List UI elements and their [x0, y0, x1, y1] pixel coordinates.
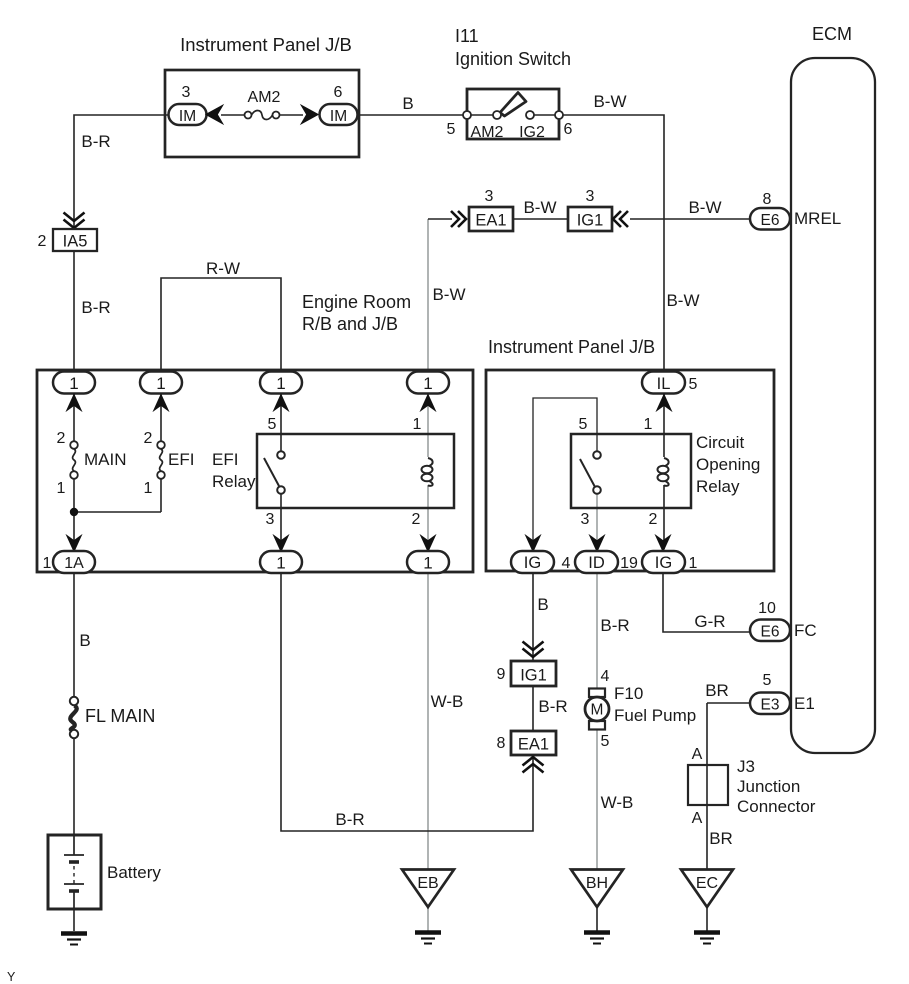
svg-text:BR: BR [705, 681, 729, 700]
arrow up col4 [421, 395, 435, 410]
svg-text:M: M [591, 702, 604, 719]
svg-text:B-W: B-W [593, 92, 626, 111]
wire engine box column MAIN fuse [73, 392, 75, 551]
connector oval 1 bottom col4 [407, 551, 449, 573]
relay COR coil [658, 458, 669, 486]
svg-text:4: 4 [562, 555, 571, 572]
wire G-R IG oval to FC terminal [663, 573, 750, 632]
svg-text:3: 3 [581, 511, 590, 528]
relay box COR [571, 434, 691, 508]
svg-text:19: 19 [620, 555, 638, 572]
svg-text:ECM: ECM [812, 24, 852, 44]
svg-text:IA5: IA5 [63, 233, 88, 251]
svg-text:AM2: AM2 [471, 124, 504, 141]
svg-text:1: 1 [43, 555, 52, 572]
svg-text:2: 2 [144, 430, 153, 447]
wire B-W gray vertical EA1 to engine box [427, 219, 429, 372]
svg-text:IG: IG [655, 554, 672, 572]
svg-text:EFI: EFI [168, 450, 194, 469]
ground triangle EC [681, 870, 733, 908]
connector box IA5 [38, 229, 97, 251]
ground triangle EB [402, 870, 454, 908]
connector oval IL [642, 372, 698, 394]
arrow down col1 [67, 536, 81, 551]
svg-text:8: 8 [497, 735, 506, 752]
svg-text:2: 2 [57, 430, 66, 447]
arrow right into IM oval [302, 106, 318, 123]
chevron double down above IG1 col [523, 642, 544, 658]
svg-text:3: 3 [266, 511, 275, 528]
wire gray COR contact to ID oval [596, 493, 598, 549]
svg-text:G-R: G-R [694, 612, 725, 631]
wire IM right oval to ignition switch [357, 114, 463, 116]
svg-text:6: 6 [564, 121, 573, 138]
svg-text:BH: BH [586, 875, 608, 892]
svg-text:FC: FC [794, 621, 817, 640]
wire ignition switch to corner down to IL [563, 115, 664, 372]
chevron double right before EA1 [451, 211, 466, 227]
connector oval IM 3 [169, 84, 207, 125]
arrow down col4 [421, 536, 435, 551]
svg-text:IG1: IG1 [520, 667, 547, 685]
svg-text:B-W: B-W [666, 291, 699, 310]
svg-text:IG: IG [524, 554, 541, 572]
svg-text:W-B: W-B [431, 692, 464, 711]
svg-text:Relay: Relay [212, 472, 256, 491]
svg-text:Instrument Panel J/B: Instrument Panel J/B [180, 34, 352, 55]
svg-text:BR: BR [709, 829, 733, 848]
wire engine box column EFI fuse [160, 392, 162, 512]
wire IG oval down to IG1 box and EA1 box [532, 573, 534, 731]
fuse MAIN [57, 430, 127, 497]
svg-text:1: 1 [144, 480, 153, 497]
svg-text:IM: IM [330, 108, 347, 125]
arrow down ID [590, 536, 604, 551]
svg-text:EA1: EA1 [518, 736, 549, 754]
connector box EA1 row [469, 188, 513, 231]
svg-text:5: 5 [268, 416, 277, 433]
svg-text:B-R: B-R [81, 132, 110, 151]
arrow down IG1 [656, 536, 670, 551]
svg-text:ID: ID [588, 554, 605, 572]
svg-text:Fuel Pump: Fuel Pump [614, 706, 696, 725]
relay COR switch [580, 451, 601, 494]
svg-text:B: B [537, 595, 548, 614]
arrow up col3 [274, 395, 288, 410]
connector oval ID 19 [575, 551, 638, 573]
svg-text:W-B: W-B [601, 793, 634, 812]
svg-text:5: 5 [601, 733, 610, 750]
junction dot [70, 508, 78, 516]
svg-text:1: 1 [57, 480, 66, 497]
wire B-R gray ID oval to fuel pump [596, 573, 598, 688]
terminal oval E6 MREL [750, 191, 841, 230]
terminal oval E6 FC [750, 600, 817, 641]
svg-text:MAIN: MAIN [84, 450, 127, 469]
svg-text:EFI: EFI [212, 450, 238, 469]
arrow up col1 [67, 395, 81, 410]
arrow up col2 [154, 395, 168, 410]
junction connector J3 [688, 746, 816, 827]
arrow down IG4 [526, 536, 540, 551]
connector box EA1 col [497, 731, 556, 755]
svg-text:B-R: B-R [335, 810, 364, 829]
wire MAIN-EFI junction link [74, 511, 161, 513]
relay EFI coil [422, 458, 433, 486]
connector oval 1A [43, 551, 95, 573]
motor fuel pump F10 [585, 689, 609, 730]
connector box IG1 row [568, 188, 612, 231]
svg-text:I11: I11 [455, 26, 479, 46]
chevron double up below EA1 col [523, 757, 544, 773]
svg-text:F10: F10 [614, 684, 643, 703]
svg-text:Circuit: Circuit [696, 433, 744, 452]
svg-text:B: B [79, 631, 90, 650]
wire engine box to FL MAIN to battery to ground [73, 573, 75, 931]
connector oval 1 engine col3 top [260, 372, 302, 394]
wire EA1 IG1 row to MREL [428, 218, 750, 220]
connector oval 1 engine col2 top [140, 372, 182, 394]
svg-text:1: 1 [413, 416, 422, 433]
svg-text:E6: E6 [761, 624, 780, 641]
wire R-W net [161, 278, 281, 372]
svg-text:5: 5 [447, 121, 456, 138]
switch I11 box [463, 89, 563, 141]
svg-text:E6: E6 [761, 212, 780, 229]
ground EB [415, 933, 441, 944]
svg-text:Engine Room: Engine Room [302, 292, 411, 312]
fusible link FL MAIN [70, 697, 156, 738]
wire engine box relay switch column [280, 392, 282, 551]
svg-text:Battery: Battery [107, 863, 161, 882]
svg-text:R-W: R-W [206, 259, 240, 278]
wire EC stub [706, 907, 708, 931]
svg-text:1: 1 [423, 554, 432, 573]
svg-text:EA1: EA1 [475, 212, 506, 230]
svg-text:J3: J3 [737, 757, 755, 776]
svg-text:B-W: B-W [688, 198, 721, 217]
svg-text:3: 3 [182, 84, 191, 101]
svg-text:Connector: Connector [737, 797, 816, 816]
svg-text:R/B and J/B: R/B and J/B [302, 314, 398, 334]
svg-text:1: 1 [276, 374, 285, 393]
svg-text:B-R: B-R [538, 697, 567, 716]
wire W-B gray engine box to EB [427, 573, 429, 869]
connector oval IG 1 [642, 551, 698, 573]
svg-text:4: 4 [601, 668, 610, 685]
svg-text:Opening: Opening [696, 455, 760, 474]
connector oval IG 4 [511, 551, 571, 573]
svg-text:B-W: B-W [523, 198, 556, 217]
switch terminals [463, 111, 471, 119]
ground BH [584, 933, 610, 944]
svg-text:B: B [402, 94, 413, 113]
wire gray inside engine box coil column [427, 392, 429, 551]
svg-text:10: 10 [758, 600, 776, 617]
svg-text:1: 1 [644, 416, 653, 433]
svg-text:EB: EB [417, 875, 438, 892]
svg-text:IM: IM [179, 108, 196, 125]
svg-text:2: 2 [649, 511, 658, 528]
svg-text:Y: Y [7, 970, 16, 984]
svg-text:2: 2 [412, 511, 421, 528]
wire IL column through COR coil [663, 392, 665, 549]
svg-text:2: 2 [38, 233, 47, 250]
wire IA5 to engine box oval [73, 251, 75, 372]
svg-text:AM2: AM2 [248, 89, 281, 106]
svg-text:B-R: B-R [600, 616, 629, 635]
wire black inside second box pin5 feed [533, 398, 597, 549]
svg-text:1: 1 [69, 374, 78, 393]
svg-text:B-R: B-R [81, 298, 110, 317]
connector oval 1 engine col4 top [407, 372, 449, 394]
svg-text:EC: EC [696, 875, 718, 892]
svg-text:E1: E1 [794, 694, 815, 713]
svg-text:1A: 1A [64, 555, 84, 572]
svg-text:3: 3 [485, 188, 494, 205]
svg-text:8: 8 [763, 191, 772, 208]
svg-text:Instrument Panel J/B: Instrument Panel J/B [488, 337, 655, 357]
svg-text:MREL: MREL [794, 209, 841, 228]
wire IM left oval to corner and down to IA5 [74, 115, 169, 229]
box Instrument Panel J/B 2 [486, 370, 774, 571]
wire E3 to J3 to EC [707, 703, 750, 869]
svg-text:Junction: Junction [737, 777, 800, 796]
chevron double down above IA5 [64, 213, 85, 229]
arrow up IL [657, 395, 671, 410]
svg-text:A: A [692, 810, 703, 827]
ground EC [694, 933, 720, 944]
svg-text:5: 5 [689, 376, 698, 393]
switch lever [500, 93, 526, 117]
chevron double left after IG1 [613, 211, 628, 227]
svg-text:9: 9 [497, 666, 506, 683]
connector oval 1 bottom col3 [260, 551, 302, 573]
svg-text:1: 1 [276, 554, 285, 573]
ground battery [61, 934, 87, 945]
wire B-R bottom run relay pin3 to EA1 connector [281, 573, 533, 831]
svg-text:IG1: IG1 [577, 212, 604, 230]
svg-text:6: 6 [334, 84, 343, 101]
arrow down col3 [274, 536, 288, 551]
svg-text:IL: IL [657, 375, 671, 393]
terminal oval E3 E1 [750, 672, 815, 714]
wire BH stub [596, 907, 598, 931]
ECM body [791, 58, 875, 753]
svg-text:A: A [692, 746, 703, 763]
ground triangle BH [571, 870, 623, 908]
connector oval 1 engine col1 top [53, 372, 95, 394]
relay box EFI [257, 434, 454, 508]
svg-text:1: 1 [156, 374, 165, 393]
svg-text:Ignition Switch: Ignition Switch [455, 49, 571, 69]
wire W-B gray fuel pump to BH [596, 730, 598, 869]
svg-text:E3: E3 [761, 697, 780, 714]
battery [48, 835, 161, 909]
svg-text:3: 3 [586, 188, 595, 205]
svg-text:IG2: IG2 [519, 124, 545, 141]
relay EFI switch [264, 451, 285, 494]
svg-text:1: 1 [423, 374, 432, 393]
connector box IG1 col [497, 661, 556, 686]
svg-text:B-W: B-W [432, 285, 465, 304]
svg-text:5: 5 [763, 672, 772, 689]
fuse EFI [144, 430, 195, 497]
fuse AM2 [221, 89, 303, 120]
box Instrument Panel J/B [165, 70, 359, 157]
wire gray EB stub [427, 907, 429, 931]
svg-text:1: 1 [689, 555, 698, 572]
svg-text:Relay: Relay [696, 477, 740, 496]
connector oval IM 6 [320, 84, 358, 125]
svg-text:FL MAIN: FL MAIN [85, 706, 155, 726]
arrow left into IM oval [207, 106, 223, 123]
svg-text:5: 5 [579, 416, 588, 433]
box Engine Room R/B [37, 370, 473, 572]
